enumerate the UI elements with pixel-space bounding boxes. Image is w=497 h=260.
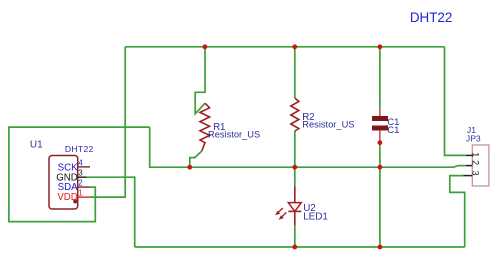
wire VDD top rail bbox=[125, 46, 444, 48]
LED U2 bbox=[275, 187, 301, 226]
resistor R1 bbox=[200, 103, 210, 151]
wire R1 bottom bbox=[190, 151, 202, 167]
svg-text:DHT22: DHT22 bbox=[410, 10, 452, 25]
J1 pin 1 stub bbox=[466, 154, 473, 156]
sensor U1 symbol box (DHT22) bbox=[49, 156, 78, 210]
svg-text:3: 3 bbox=[471, 171, 481, 176]
wire GND from U1 pin 3 bbox=[87, 177, 135, 247]
wire mid rail node N1 bbox=[150, 127, 466, 167]
junction top rail / C1 bbox=[378, 44, 383, 49]
svg-text:VDD: VDD bbox=[57, 192, 77, 203]
pin 3 stub (GND) bbox=[78, 176, 87, 178]
junction bottom rail / LED bbox=[292, 245, 297, 250]
wire R1 top bbox=[195, 47, 205, 114]
wire SDA loop around U1 bbox=[9, 127, 150, 222]
junction top rail / R1 bbox=[203, 44, 208, 49]
svg-text:DHT22: DHT22 bbox=[65, 144, 94, 154]
junction mid rail / C1 bbox=[378, 165, 383, 170]
svg-text:JP3: JP3 bbox=[466, 134, 481, 144]
wire LED anode bbox=[294, 167, 296, 186]
svg-text:2: 2 bbox=[78, 179, 83, 188]
svg-text:2: 2 bbox=[471, 160, 481, 165]
capacitor C1 bbox=[372, 108, 388, 143]
pin 4 stub (SCK) bbox=[78, 166, 90, 168]
svg-text:LED1: LED1 bbox=[303, 212, 328, 223]
LED emission arrow 1 bbox=[278, 208, 283, 213]
svg-text:Resistor_US: Resistor_US bbox=[208, 130, 260, 140]
junction top rail / R2 bbox=[292, 44, 297, 49]
svg-text:Resistor_US: Resistor_US bbox=[302, 120, 354, 130]
svg-text:1: 1 bbox=[78, 189, 83, 198]
svg-text:1: 1 bbox=[471, 152, 481, 157]
J1 pin 3 stub bbox=[463, 175, 472, 177]
connector J1 JP3 bbox=[463, 145, 489, 186]
resistor R2 bbox=[291, 98, 299, 131]
pin 1 stub (VDD) bbox=[78, 196, 90, 198]
wire top rail to J1 pin 1 bbox=[445, 47, 466, 156]
junction mid rail / R1 bbox=[187, 165, 192, 170]
J1 pin 2 stub bbox=[466, 165, 472, 167]
wire R2 top bbox=[294, 47, 296, 98]
VDD pin dot bbox=[73, 199, 77, 203]
svg-text:3: 3 bbox=[78, 169, 83, 178]
pin 2 stub (SDA) bbox=[78, 186, 90, 188]
junction C1 pin end bbox=[378, 140, 383, 145]
wire bottom rail bbox=[135, 246, 465, 248]
wire mid rail to bottom rail bbox=[379, 167, 381, 247]
wire C1 top bbox=[379, 47, 381, 108]
LED emission arrow 2 bbox=[281, 213, 286, 218]
junction bottom rail / C1 branch bbox=[378, 245, 383, 250]
wire J1 pin 3 to bottom rail bbox=[450, 176, 465, 247]
wire R2 bottom bbox=[294, 131, 296, 167]
svg-text:U1: U1 bbox=[30, 140, 43, 151]
svg-text:C1: C1 bbox=[387, 125, 399, 136]
junction mid rail / R2-LED bbox=[292, 165, 297, 170]
svg-text:4: 4 bbox=[78, 158, 83, 167]
wire C1 bottom bbox=[379, 143, 381, 168]
wire VDD riser to U1 pin 1 bbox=[90, 47, 126, 197]
wire LED cathode to bottom rail bbox=[294, 225, 296, 247]
